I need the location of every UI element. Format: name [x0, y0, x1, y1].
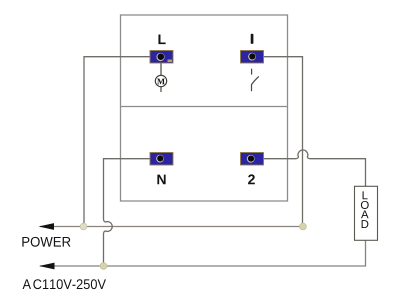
wire AC bus [40, 240, 366, 266]
wire L terminal to POWER bus [84, 57, 150, 225]
arrow AC [39, 263, 55, 270]
terminal 2 [241, 153, 264, 166]
label L [158, 34, 165, 44]
junction dot: L wire on POWER bus [80, 223, 87, 230]
switch S1 dash (mechanical link) [251, 69, 253, 75]
label AC110V-250V [23, 279, 106, 289]
label 2 [248, 174, 255, 184]
junction dot: N wire on AC bus [100, 263, 107, 270]
label N [157, 175, 165, 185]
label 1 [251, 34, 254, 44]
junction dot: terminal-1 wire on POWER bus [300, 223, 307, 230]
divider line between box halves [121, 106, 288, 108]
controller box outline [121, 15, 288, 201]
label POWER [22, 237, 70, 247]
terminal N [150, 153, 173, 166]
motor M symbol stem [160, 63, 162, 92]
terminal L [150, 51, 173, 64]
wire N terminal down to AC bus with hop over POWER [104, 159, 151, 264]
wire terminal 1 to POWER bus [264, 57, 303, 225]
wire terminal 2 to LOAD with hop over vertical wire [264, 150, 366, 186]
terminal 1 [241, 51, 264, 64]
switch S1 lower lead [251, 84, 253, 91]
switch S1 blade [252, 76, 259, 84]
load box [355, 186, 378, 240]
label LOAD [361, 191, 369, 228]
motor M circle [155, 75, 166, 86]
arrow POWER [39, 223, 55, 230]
wire POWER bus [40, 226, 303, 228]
